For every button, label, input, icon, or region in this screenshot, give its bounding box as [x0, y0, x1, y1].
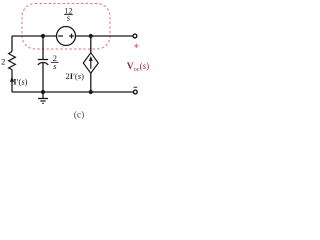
wire diamond bottom	[90, 73, 92, 92]
resistor R 2	[9, 52, 16, 70]
voltage source V1 12/s	[57, 27, 76, 46]
ground	[42, 92, 44, 98]
node C (cap bottom / ground)	[41, 90, 45, 94]
wire to diamond top	[90, 36, 92, 53]
bottom wire	[12, 91, 133, 93]
dependent source 2I'(s) diamond	[83, 53, 98, 73]
wire source to top terminal	[76, 35, 134, 37]
svg-text:2: 2	[1, 56, 5, 66]
svg-text:I′(s): I′(s)	[13, 77, 27, 87]
node D (diamond bottom)	[89, 90, 93, 94]
background	[0, 0, 157, 122]
terminal bottom (open)	[133, 90, 137, 94]
terminal top (open)	[133, 34, 137, 38]
wire top-left to source	[12, 35, 57, 37]
dashed red loop (KVL path)	[22, 4, 110, 50]
minus sign	[134, 86, 138, 88]
node B (diamond top)	[89, 34, 93, 38]
capacitor C 2/s	[42, 36, 44, 59]
plus sign (red)	[134, 44, 138, 48]
node A (cap top)	[41, 34, 45, 38]
left branch wire upper	[11, 36, 13, 52]
svg-text:(c): (c)	[74, 110, 85, 121]
svg-text:2I′(s): 2I′(s)	[66, 71, 85, 81]
left branch wire lower	[11, 70, 13, 93]
current arrow I'(s)	[10, 77, 14, 82]
